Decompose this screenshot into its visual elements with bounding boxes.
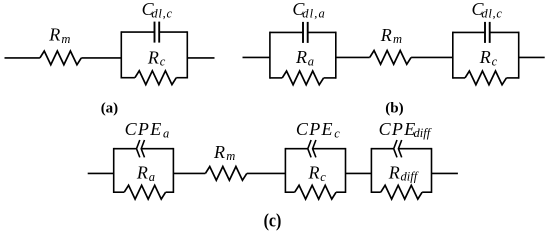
svg-text:(b): (b) [385,101,403,117]
svg-text:Cdl,c: Cdl,c [472,0,503,20]
svg-text:(a): (a) [101,100,119,116]
svg-text:Ra: Ra [136,163,155,184]
svg-text:Rc: Rc [479,47,498,68]
svg-text:(c): (c) [264,209,282,231]
svg-text:Ra: Ra [295,47,314,68]
svg-text:Rdiff: Rdiff [388,162,419,183]
svg-text:Rc: Rc [308,163,327,184]
svg-text:Cdl,a: Cdl,a [292,0,326,20]
svg-text:CPEc: CPEc [296,119,340,140]
svg-text:CPEdiff: CPEdiff [379,119,432,140]
svg-text:CPEa: CPEa [125,119,170,140]
svg-text:Rm: Rm [48,25,70,46]
svg-text:Rc: Rc [147,47,166,68]
svg-text:Cdl,c: Cdl,c [142,0,173,20]
svg-text:Rm: Rm [380,25,402,46]
svg-text:Rm: Rm [213,142,235,163]
